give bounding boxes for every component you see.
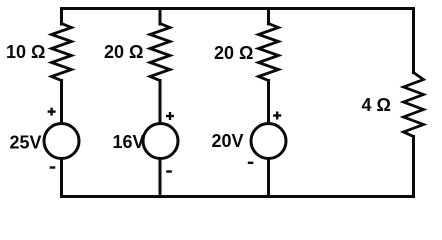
- minus sign branch3: [248, 162, 254, 164]
- wire branch3 top stub: [267, 9, 270, 25]
- resistor 20 ohm (middle-right): [259, 24, 279, 81]
- minus sign branch2: [166, 170, 172, 172]
- resistor 20 ohm (middle-left): [150, 24, 170, 81]
- wire branch3 bottom stub: [267, 159, 270, 197]
- svg-text:4 Ω: 4 Ω: [362, 95, 391, 115]
- resistor 10 ohm: [52, 24, 72, 81]
- wire right side top: [412, 9, 415, 73]
- minus sign branch1: [50, 166, 56, 168]
- wire branch2 top stub: [159, 9, 162, 25]
- svg-text:20 Ω: 20 Ω: [104, 42, 143, 62]
- wire branch1 bottom stub: [60, 159, 63, 197]
- svg-text:10 Ω: 10 Ω: [6, 42, 45, 62]
- voltage source 25V: [44, 124, 79, 159]
- voltage source 16V: [143, 124, 178, 159]
- wire branch2 mid: [159, 81, 162, 124]
- svg-text:16V: 16V: [113, 132, 145, 152]
- wire branch3 mid: [267, 81, 270, 124]
- top wire: [62, 7, 414, 10]
- resistor 4 ohm: [404, 73, 424, 137]
- voltage source 20V: [251, 124, 286, 159]
- svg-text:25V: 25V: [10, 133, 42, 153]
- plus sign branch2: [166, 115, 174, 117]
- bottom wire: [62, 195, 414, 198]
- svg-text:20V: 20V: [212, 131, 244, 151]
- svg-text:20 Ω: 20 Ω: [214, 43, 253, 63]
- wire branch2 bottom stub: [159, 159, 162, 197]
- wire branch1 top stub: [60, 9, 63, 25]
- plus sign branch1: [48, 110, 56, 112]
- wire right side bottom: [412, 137, 415, 197]
- plus sign branch3: [273, 114, 281, 116]
- wire branch1 mid: [60, 81, 63, 124]
